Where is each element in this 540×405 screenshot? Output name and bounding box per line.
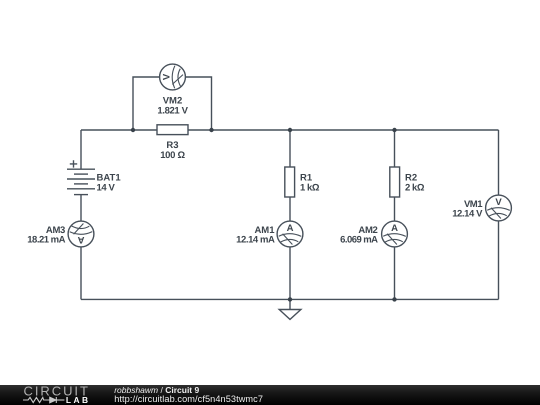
svg-text:1 kΩ: 1 kΩ: [300, 182, 320, 193]
svg-text:12.14 V: 12.14 V: [452, 208, 483, 219]
svg-text:1.821 V: 1.821 V: [157, 105, 188, 116]
svg-text:2 kΩ: 2 kΩ: [405, 182, 425, 193]
svg-text:100 Ω: 100 Ω: [160, 150, 185, 161]
svg-text:14 V: 14 V: [97, 182, 116, 193]
svg-text:18.21 mA: 18.21 mA: [27, 235, 65, 246]
svg-text:12.14 mA: 12.14 mA: [236, 235, 275, 246]
svg-text:LAB: LAB: [66, 395, 91, 405]
svg-text:6.069 mA: 6.069 mA: [340, 235, 378, 246]
